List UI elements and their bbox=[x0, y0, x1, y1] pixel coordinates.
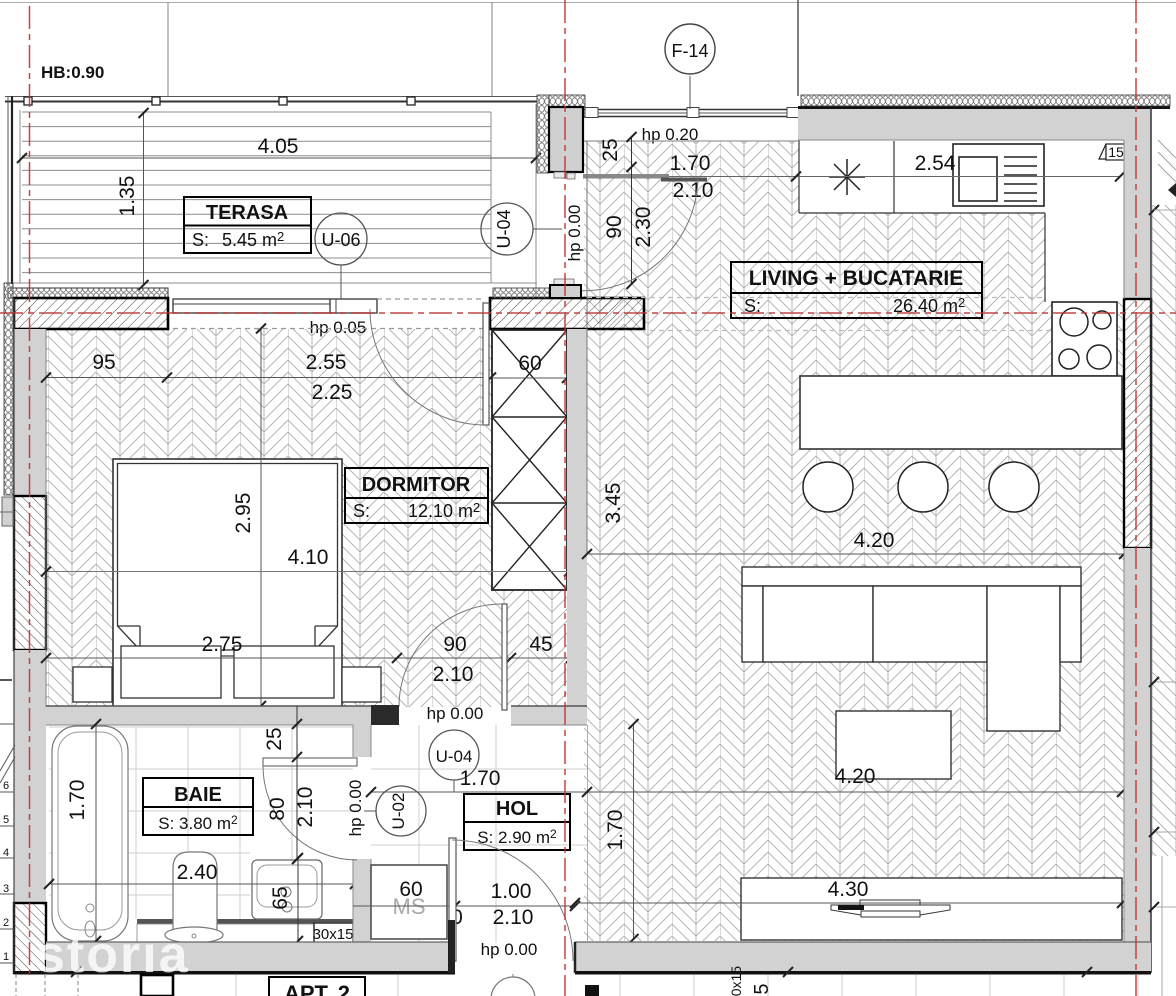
svg-text:U-04: U-04 bbox=[494, 209, 514, 248]
TV bbox=[831, 900, 950, 917]
svg-text:95: 95 bbox=[92, 351, 115, 374]
svg-text:2.10: 2.10 bbox=[433, 663, 474, 686]
svg-text:30x15: 30x15 bbox=[728, 966, 744, 996]
svg-text:90: 90 bbox=[443, 633, 466, 656]
U-04 callout hol bbox=[429, 730, 479, 780]
svg-text:4.20: 4.20 bbox=[835, 765, 876, 788]
TERASA decking bbox=[8, 104, 537, 299]
terasa railing left bbox=[7, 96, 9, 284]
dim 2.75 / 90 2.10 / 45 bbox=[46, 657, 571, 659]
svg-text:4.10: 4.10 bbox=[288, 546, 329, 569]
dormitor parquet floor bbox=[46, 329, 567, 707]
bathtub bbox=[52, 726, 128, 941]
hatched wall left bottom bbox=[14, 903, 46, 973]
gray wall left upper bbox=[14, 329, 46, 496]
svg-text:4.20: 4.20 bbox=[854, 529, 895, 552]
svg-text:U-02: U-02 bbox=[389, 793, 408, 830]
dim 65 vertical bbox=[297, 858, 299, 941]
dashed projection lines bbox=[587, 297, 1124, 299]
svg-text:hp 0.05: hp 0.05 bbox=[310, 318, 367, 337]
svg-text:S: 3.80 m2: S: 3.80 m2 bbox=[158, 813, 238, 833]
small ledge left bbox=[2, 497, 13, 526]
svg-text:3: 3 bbox=[3, 883, 9, 895]
right strip neighbour details bbox=[1154, 682, 1176, 996]
dim 1.70 vertical living bbox=[633, 724, 635, 939]
svg-text:U-04: U-04 bbox=[436, 747, 473, 766]
living parquet floor bbox=[584, 141, 1124, 941]
insulation band top-left wall bbox=[8, 288, 168, 298]
svg-text:5: 5 bbox=[3, 814, 9, 826]
dim 3.45 vertical bbox=[586, 141, 588, 554]
svg-text:1: 1 bbox=[3, 951, 9, 963]
insulation strip left bbox=[4, 283, 13, 495]
dim 1.35 bbox=[143, 113, 145, 285]
low window hp 0.05 sill bbox=[173, 299, 377, 313]
extension line x798 bbox=[797, 0, 799, 96]
svg-text:1.70: 1.70 bbox=[460, 767, 501, 790]
svg-text:2.75: 2.75 bbox=[202, 633, 243, 656]
MS washing machine bbox=[371, 865, 447, 939]
nightstand right bbox=[342, 667, 381, 702]
svg-text:S: 2.90 m2: S: 2.90 m2 bbox=[477, 827, 557, 847]
svg-text:TERASA: TERASA bbox=[206, 202, 288, 224]
cooktop bbox=[1052, 302, 1117, 376]
entry icon bbox=[585, 985, 599, 996]
svg-text:HOL: HOL bbox=[496, 798, 538, 820]
kitchen island bbox=[800, 376, 1122, 449]
top wall black line bbox=[798, 106, 1170, 109]
svg-text:30x15: 30x15 bbox=[313, 926, 354, 943]
svg-text:60: 60 bbox=[399, 878, 422, 901]
top wall insulation bbox=[801, 95, 1170, 106]
svg-text:4.05: 4.05 bbox=[258, 135, 299, 158]
svg-text:1.70: 1.70 bbox=[670, 152, 711, 175]
bar stools bbox=[803, 462, 853, 512]
svg-text:2.95: 2.95 bbox=[232, 493, 255, 534]
black pier at dormitor door bbox=[371, 705, 399, 725]
svg-text:2.54: 2.54 bbox=[915, 152, 956, 175]
coffee table bbox=[836, 711, 951, 779]
window top living bbox=[583, 109, 798, 111]
baie door arc bbox=[263, 766, 357, 860]
BAIE label box bbox=[143, 778, 253, 835]
washbasin bbox=[252, 860, 322, 919]
svg-text:BAIE: BAIE bbox=[174, 784, 222, 806]
piers at living terasa door bbox=[537, 95, 549, 173]
baie door leaf bbox=[263, 758, 357, 766]
svg-text:80: 80 bbox=[266, 797, 289, 820]
stair treads neighbour left bbox=[0, 680, 15, 963]
svg-text:2.10: 2.10 bbox=[673, 179, 714, 202]
svg-text:1.70: 1.70 bbox=[66, 780, 89, 821]
dim 4.20 at y554 bbox=[587, 553, 1124, 555]
TV stand bbox=[741, 878, 1122, 940]
dim 2.54 and door line bbox=[583, 176, 1120, 178]
wall below bbox=[141, 975, 173, 996]
dim 4.05 bbox=[22, 157, 536, 159]
svg-text:65: 65 bbox=[269, 886, 292, 909]
dim 1.70 bathtub bbox=[95, 724, 97, 941]
door terasa-dormitor leaf bbox=[483, 303, 489, 425]
wall dormitor-baie bbox=[46, 706, 371, 725]
HOL label box bbox=[464, 794, 570, 850]
vanity counter dark edge bbox=[137, 919, 353, 924]
living terasa door arc bbox=[563, 176, 698, 291]
svg-text:12.10 m2: 12.10 m2 bbox=[408, 500, 480, 521]
bed outer bbox=[113, 459, 342, 707]
svg-text:S:: S: bbox=[192, 230, 209, 250]
bed mattress bbox=[118, 464, 338, 651]
dim 4.30 at y903 bbox=[575, 902, 1122, 904]
TERASA label box bbox=[184, 197, 311, 253]
svg-text:APT. 2: APT. 2 bbox=[284, 981, 350, 996]
BAIE tile grid bbox=[49, 725, 353, 919]
svg-text:LIVING + BUCATARIE: LIVING + BUCATARIE bbox=[749, 267, 963, 290]
left wall edge line bbox=[13, 298, 15, 973]
bench left bbox=[121, 646, 221, 698]
U-04 callout terasa bbox=[481, 203, 533, 255]
kitchen counter top bbox=[799, 140, 1072, 213]
parquet boundary hol-living bbox=[587, 725, 589, 941]
top extension line border bbox=[0, 2, 1176, 4]
hatched wall left mid bbox=[14, 496, 46, 650]
svg-text:hp 0.00: hp 0.00 bbox=[481, 940, 538, 959]
svg-text:storia: storia bbox=[36, 926, 190, 984]
DORMITOR label box bbox=[345, 468, 488, 523]
dim 25/80/2.10 vertical at baie door bbox=[296, 706, 298, 859]
svg-text:60: 60 bbox=[518, 352, 541, 375]
svg-text:2: 2 bbox=[3, 917, 9, 929]
svg-text:5.45 m2: 5.45 m2 bbox=[222, 229, 284, 250]
entrance door leaf bbox=[449, 838, 456, 961]
APT. 2 label bbox=[269, 977, 365, 996]
dim 1.70 / 4.20 at y792 bbox=[371, 791, 1122, 793]
door dormitor-hol arc bbox=[399, 604, 502, 707]
svg-text:1.70: 1.70 bbox=[604, 810, 627, 851]
wall baie-hol vertical bbox=[353, 725, 371, 757]
svg-text:2.10: 2.10 bbox=[294, 787, 317, 828]
sliding door panels bbox=[583, 174, 669, 179]
svg-text:S:: S: bbox=[353, 501, 370, 521]
gray wall left lower bbox=[14, 650, 46, 903]
svg-text:2.40: 2.40 bbox=[177, 861, 218, 884]
svg-text:15: 15 bbox=[1108, 144, 1124, 160]
wall hol top right part bbox=[511, 706, 587, 725]
svg-text:25: 25 bbox=[263, 727, 286, 750]
dim 25/90/2.30 vertical at living door bbox=[631, 137, 633, 284]
30x15 label bbox=[314, 922, 353, 929]
svg-text:2.30: 2.30 bbox=[632, 207, 655, 248]
svg-text:2.10: 2.10 bbox=[493, 906, 534, 929]
bottom exterior wall bbox=[46, 942, 455, 972]
svg-text:2.55: 2.55 bbox=[306, 351, 347, 374]
15 label flag bbox=[1099, 144, 1106, 159]
dashed opening lines bbox=[377, 298, 483, 300]
svg-text:HB:0.90: HB:0.90 bbox=[41, 63, 104, 82]
U-02 callout bbox=[376, 786, 426, 836]
terasa railing top bbox=[5, 96, 537, 98]
wall block terasa left (hatched) bbox=[14, 298, 168, 329]
toilet bbox=[173, 852, 217, 930]
cooker hood symbol bbox=[829, 159, 865, 195]
bed foot band bbox=[138, 650, 316, 656]
U-06 callout bbox=[315, 213, 367, 265]
top exterior wall gray band bbox=[798, 107, 1151, 140]
extension line x492 bbox=[491, 2, 493, 96]
wall block terasa-living (hatched) bbox=[490, 298, 644, 329]
HOL tile grid bbox=[371, 725, 587, 943]
svg-text:25: 25 bbox=[599, 138, 622, 161]
svg-text:F-14: F-14 bbox=[671, 41, 708, 61]
door dormitor-hol leaf bbox=[502, 604, 507, 710]
svg-text:hp 0.00: hp 0.00 bbox=[565, 205, 584, 262]
neighbour parquet strip right bbox=[1152, 205, 1176, 856]
svg-text:1.00: 1.00 bbox=[491, 880, 532, 903]
sink bbox=[953, 144, 1044, 206]
dim line 95 / 2.55 / 60 bbox=[46, 377, 491, 379]
right exterior wall bbox=[1124, 140, 1151, 299]
svg-text:4: 4 bbox=[3, 847, 9, 859]
LIVING label box bbox=[731, 262, 982, 318]
dim 2.95 vertical bbox=[260, 329, 262, 707]
svg-text:hp 0.00: hp 0.00 bbox=[427, 704, 484, 723]
svg-text:4.30: 4.30 bbox=[828, 878, 869, 901]
svg-text:90: 90 bbox=[603, 215, 626, 238]
F-14 callout bbox=[665, 24, 715, 74]
sofa bbox=[742, 567, 1081, 586]
nightstand left bbox=[73, 667, 112, 702]
svg-text:2.25: 2.25 bbox=[312, 381, 353, 404]
door terasa-dormitor arc bbox=[370, 309, 486, 425]
svg-text:6: 6 bbox=[3, 780, 9, 792]
railing posts bbox=[24, 97, 415, 105]
svg-text:3.45: 3.45 bbox=[602, 483, 625, 524]
bench right bbox=[234, 646, 334, 698]
wall dormitor-living vertical bbox=[567, 329, 587, 707]
dim 4.10 bbox=[46, 571, 569, 573]
wardrobe with X bbox=[492, 330, 567, 590]
entrance door arc bbox=[452, 840, 573, 961]
svg-text:hp 0.00: hp 0.00 bbox=[346, 780, 365, 837]
svg-text:1.35: 1.35 bbox=[116, 176, 139, 217]
svg-text:5: 5 bbox=[751, 983, 773, 994]
extension line x168 bbox=[167, 2, 169, 96]
svg-text:U-06: U-06 bbox=[321, 230, 360, 250]
svg-text:DORMITOR: DORMITOR bbox=[362, 474, 471, 496]
svg-text:45: 45 bbox=[529, 633, 552, 656]
